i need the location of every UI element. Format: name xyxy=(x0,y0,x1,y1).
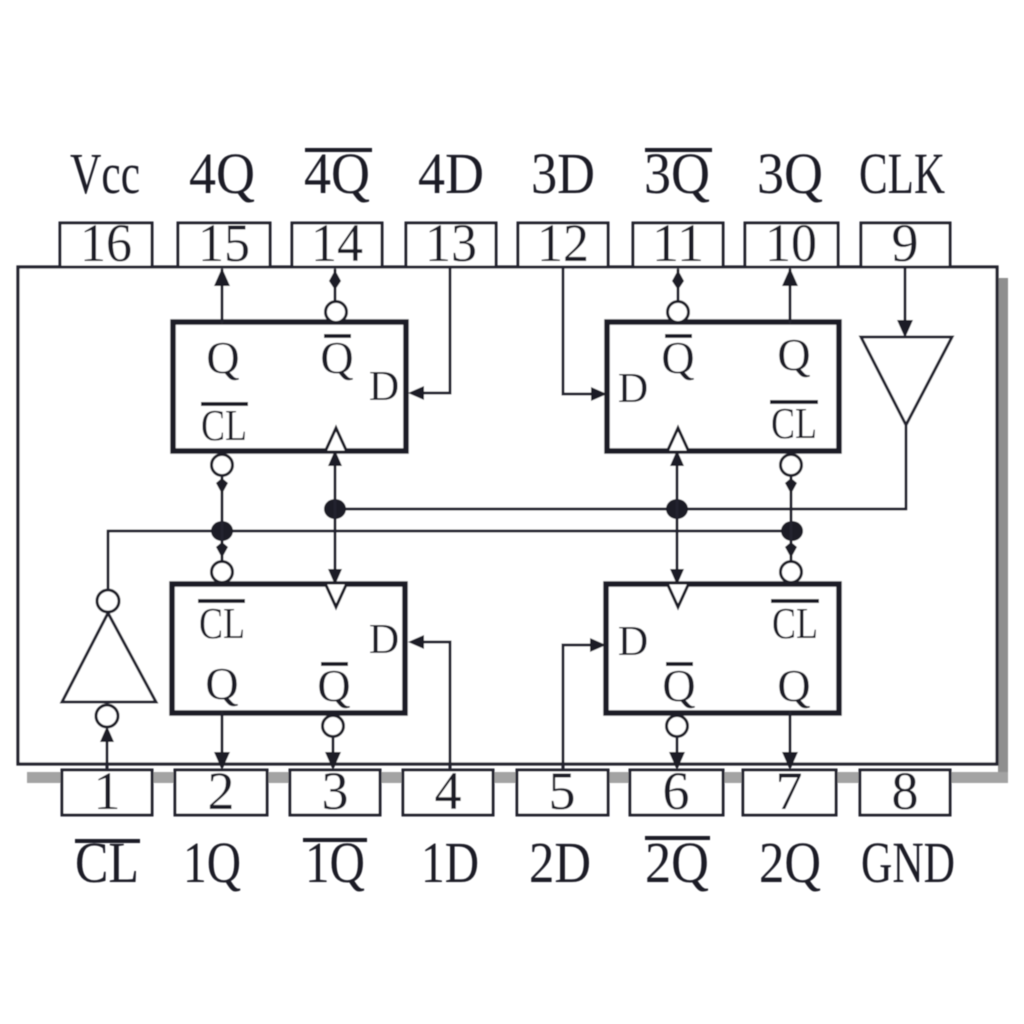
CL bus horizontal wire xyxy=(108,530,792,533)
FF1 label CL-bar xyxy=(198,599,245,648)
pin 2 box xyxy=(175,761,267,821)
net label 4D (pin 13) xyxy=(418,141,484,206)
svg-text:12: 12 xyxy=(537,213,589,273)
inverter U2 input bubble xyxy=(96,705,118,727)
wire clock bus down to FF1 clock pin xyxy=(328,509,342,585)
net label 4Q-bar (pin 14) xyxy=(304,141,372,206)
svg-text:2Q: 2Q xyxy=(759,830,821,895)
FF4 label Q-bar xyxy=(320,332,353,383)
FF2 label D xyxy=(618,619,648,665)
svg-text:Q: Q xyxy=(777,329,810,380)
wire FF1 Q-bar output to pin3 xyxy=(325,737,341,770)
pin 8 box xyxy=(860,761,950,821)
FF1 label Q xyxy=(205,658,238,709)
FF3 CL output bubble xyxy=(781,455,802,476)
svg-text:CL: CL xyxy=(772,599,818,648)
net label 2Q (pin 7) xyxy=(759,830,821,895)
FF3 Q-bar output bubble xyxy=(668,302,689,323)
wire pin9 to inverter U3 input xyxy=(897,267,913,338)
svg-text:9: 9 xyxy=(892,213,919,273)
wire pin5 to FF2 D input xyxy=(563,638,606,770)
svg-text:2D: 2D xyxy=(529,830,591,895)
net label Vcc (pin 16) xyxy=(70,141,140,206)
svg-text:CL: CL xyxy=(771,399,817,448)
wire FF1 Q output to pin2 xyxy=(214,713,230,770)
svg-text:GND: GND xyxy=(861,830,955,895)
svg-text:2: 2 xyxy=(208,761,235,821)
pin 14 box xyxy=(292,213,382,273)
wire pin14 to FF4 Q-bar output xyxy=(329,270,341,303)
wire CL bus to FF2 CL bubble xyxy=(785,531,797,560)
wire FF2 Q-bar output to pin6 xyxy=(669,737,685,770)
svg-text:6: 6 xyxy=(663,761,690,821)
svg-text:Q: Q xyxy=(317,660,350,711)
svg-text:Vcc: Vcc xyxy=(70,141,140,206)
wire pin1 to inverter U2 input xyxy=(100,726,114,770)
FF2 CL input bubble xyxy=(781,562,802,583)
svg-text:D: D xyxy=(369,364,399,410)
svg-text:Q: Q xyxy=(662,660,695,711)
FF1 CL input bubble xyxy=(212,562,233,583)
wire pin12 to FF3 D input xyxy=(563,267,607,401)
pin 12 box xyxy=(518,213,608,273)
pin 6 box xyxy=(630,761,723,821)
svg-text:D: D xyxy=(369,617,399,663)
svg-text:1Q: 1Q xyxy=(183,830,241,895)
wire U2 output to CL bus xyxy=(107,531,110,590)
junction clock at FF3 xyxy=(666,499,688,519)
wire pin10 to FF3 Q output xyxy=(782,268,798,322)
net label CL-bar (pin 1) xyxy=(75,830,140,895)
wire FF4 CL to CL bus xyxy=(216,476,228,531)
svg-text:8: 8 xyxy=(892,761,919,821)
flip-flop FF1 (bottom-left) xyxy=(172,584,405,713)
junction clock at FF4 xyxy=(324,499,346,519)
svg-text:16: 16 xyxy=(80,213,132,273)
svg-text:Q: Q xyxy=(320,332,353,383)
svg-text:4D: 4D xyxy=(418,141,484,206)
net label 1D (pin 4) xyxy=(421,830,479,895)
clock bus horizontal wire xyxy=(335,508,906,511)
wire clock bus down to FF2 clock pin xyxy=(670,509,684,585)
pin 7 box xyxy=(743,761,836,821)
svg-text:D: D xyxy=(618,619,648,665)
svg-text:Q: Q xyxy=(661,332,694,383)
FF4 label CL-bar xyxy=(201,401,248,450)
net label GND (pin 8) xyxy=(861,830,955,895)
svg-text:3: 3 xyxy=(322,761,349,821)
junction CL at FF4 xyxy=(211,521,233,541)
svg-text:4Q: 4Q xyxy=(189,141,255,206)
svg-text:D: D xyxy=(618,366,648,412)
pin 3 box xyxy=(290,761,380,821)
FF2 clock pin triangle xyxy=(667,583,689,607)
flip-flop FF3 (top-right) xyxy=(607,322,839,451)
FF2 Q-bar output bubble xyxy=(667,716,688,737)
pin 15 box xyxy=(178,213,270,273)
svg-text:CLK: CLK xyxy=(859,141,945,206)
svg-text:3Q: 3Q xyxy=(757,141,823,206)
net label 3Q (pin 10) xyxy=(757,141,823,206)
wire FF3 CL to CL bus xyxy=(785,476,797,531)
svg-text:3D: 3D xyxy=(531,141,595,206)
svg-text:CL: CL xyxy=(199,599,245,648)
net label 2D (pin 5) xyxy=(529,830,591,895)
svg-text:Q: Q xyxy=(777,660,810,711)
FF4 label Q xyxy=(206,332,239,383)
pin 1 box xyxy=(62,761,152,821)
FF3 label D xyxy=(618,366,648,412)
flip-flop FF4 (top-left) xyxy=(173,322,406,451)
FF1 clock pin triangle xyxy=(325,583,347,607)
wire pin11 to FF3 Q-bar output xyxy=(672,270,684,303)
pin 16 box xyxy=(60,213,152,273)
net label 1Q (pin 2) xyxy=(183,830,241,895)
net label 3Q-bar (pin 11) xyxy=(644,141,712,206)
FF1 label D xyxy=(369,617,399,663)
pin 4 box xyxy=(403,761,493,821)
svg-text:11: 11 xyxy=(652,213,704,273)
inverter U2 output bubble xyxy=(97,590,119,612)
FF3 label Q-bar xyxy=(661,332,694,383)
svg-text:14: 14 xyxy=(311,213,363,273)
svg-text:10: 10 xyxy=(765,213,817,273)
FF1 label Q-bar xyxy=(317,660,350,711)
FF4 Q-bar output bubble xyxy=(326,302,347,323)
pin 10 box xyxy=(745,213,838,273)
FF3 label CL-bar xyxy=(770,399,818,448)
svg-text:4: 4 xyxy=(435,761,462,821)
net label CLK (pin 9) xyxy=(859,141,945,206)
FF3 label Q xyxy=(777,329,810,380)
FF1 Q-bar output bubble xyxy=(323,716,344,737)
pin 9 box xyxy=(861,213,950,273)
wire pin15 to FF4 Q output xyxy=(214,268,230,322)
FF3 clock pin triangle xyxy=(667,428,689,452)
pin 13 box xyxy=(406,213,496,273)
svg-text:7: 7 xyxy=(776,761,803,821)
inverter U2 (CL-bar driver) xyxy=(62,613,156,702)
FF2 label Q xyxy=(777,660,810,711)
net label 3D (pin 12) xyxy=(531,141,595,206)
svg-text:15: 15 xyxy=(198,213,250,273)
FF2 label CL-bar xyxy=(771,599,819,648)
FF4 clock pin triangle xyxy=(325,428,347,452)
pin 5 box xyxy=(517,761,608,821)
junction CL at FF2 xyxy=(781,521,803,541)
wire U3 output to clock bus xyxy=(905,425,908,509)
FF4 label D xyxy=(369,364,399,410)
svg-text:Q: Q xyxy=(206,332,239,383)
net label 4Q (pin 15) xyxy=(189,141,255,206)
pin 11 box xyxy=(633,213,723,273)
inverter U3 (CLK buffer) xyxy=(861,337,952,425)
svg-text:1D: 1D xyxy=(421,830,479,895)
wire pin4 to FF1 D input xyxy=(408,635,450,770)
FF2 label Q-bar xyxy=(662,660,695,711)
wire clock bus up to FF3 clock pin xyxy=(670,450,684,509)
IC body outline U1 (DIP-16) xyxy=(18,267,997,764)
svg-text:Q: Q xyxy=(205,658,238,709)
svg-text:CL: CL xyxy=(201,401,247,450)
wire pin13 to FF4 D input xyxy=(408,267,450,400)
svg-text:13: 13 xyxy=(425,213,477,273)
wire FF2 Q output to pin7 xyxy=(782,713,798,770)
net label 1Q-bar (pin 3) xyxy=(303,830,367,895)
wire clock bus up to FF4 clock pin xyxy=(328,450,342,509)
wire CL bus to FF1 CL bubble xyxy=(216,531,228,560)
FF4 CL output bubble xyxy=(212,455,233,476)
IC body shadow xyxy=(27,278,1008,783)
flip-flop FF2 (bottom-right) xyxy=(606,584,839,713)
net label 2Q-bar (pin 6) xyxy=(645,830,710,895)
